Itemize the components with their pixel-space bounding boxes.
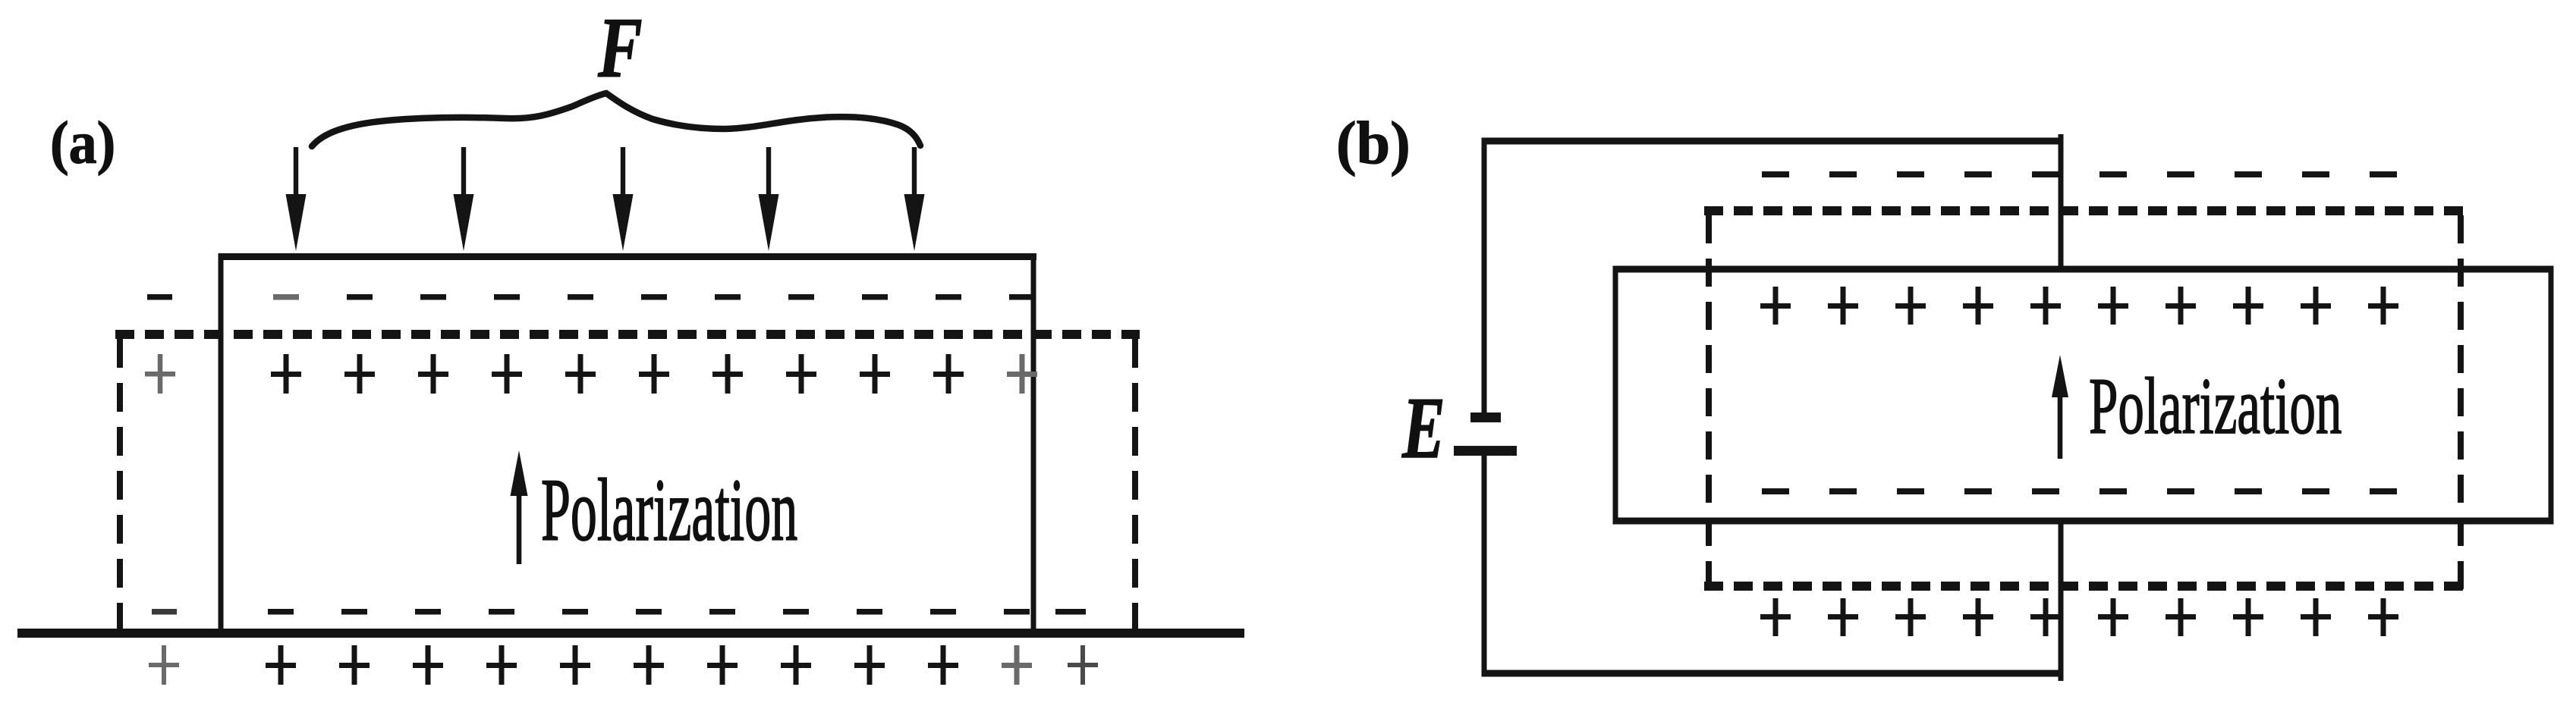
wire top (b)	[1482, 138, 2063, 145]
wire left upper segment (b)	[1482, 138, 1487, 413]
label (a)	[50, 108, 115, 176]
negative bound charge row, bottom (a)	[152, 609, 1086, 615]
svg-text:Polarization: Polarization	[2089, 363, 2342, 451]
wire right lower segment (b)	[2059, 518, 2064, 681]
negative bound charge row, lower (b)	[1762, 488, 2397, 494]
undeformed outline dashed rectangle (a)	[115, 334, 1140, 633]
undeformed outline dashed rectangle (b)	[1704, 211, 2465, 591]
positive bound charge row, top (a)	[145, 354, 1037, 394]
wire left lower segment (b)	[1482, 456, 1487, 676]
svg-text:Polarization: Polarization	[541, 460, 797, 559]
svg-text:F: F	[597, 0, 643, 96]
svg-text:E: E	[1401, 379, 1445, 476]
polarization arrow (a)	[511, 450, 528, 564]
negative surface charge row, top (a)	[147, 294, 1035, 300]
battery symbol E	[1454, 412, 1517, 456]
wire right upper segment (b)	[2059, 134, 2064, 272]
force arrow 4	[759, 147, 779, 251]
crystal body (b) solid rectangle	[1613, 266, 2554, 525]
negative surface charge row, top (b)	[1762, 171, 2397, 177]
svg-text:(b): (b)	[1336, 111, 1411, 177]
wire bottom (b)	[1482, 670, 2063, 677]
force arrow 3	[613, 147, 634, 251]
force arrow 5	[904, 147, 925, 251]
brace under F	[312, 93, 920, 146]
polarization label (a)	[541, 460, 797, 559]
ground base line	[17, 629, 1244, 638]
polarization arrow (b)	[2052, 355, 2068, 459]
source label E	[1401, 379, 1445, 476]
force arrow 2	[454, 147, 474, 251]
force label F	[597, 0, 643, 96]
positive surface charge row, bottom (a)	[149, 645, 1098, 685]
svg-text:(a): (a)	[50, 108, 115, 176]
crystal body (a) solid outline	[219, 253, 1037, 633]
positive surface charge row, bottom (b)	[1760, 598, 2398, 636]
polarization label (b)	[2089, 363, 2342, 451]
force arrow 1	[286, 147, 307, 251]
positive bound charge row, upper (b)	[1760, 287, 2398, 325]
label (b)	[1336, 111, 1411, 177]
